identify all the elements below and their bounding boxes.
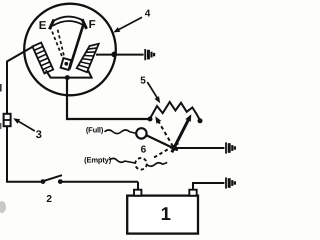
svg-text:(Full): (Full) (86, 125, 104, 134)
svg-text:6: 6 (141, 145, 147, 156)
svg-text:4: 4 (145, 8, 151, 19)
svg-text:F: F (89, 19, 96, 31)
svg-text:2: 2 (46, 194, 52, 205)
svg-text:(Empty): (Empty) (84, 155, 112, 164)
svg-text:3: 3 (36, 129, 42, 141)
svg-text:E: E (39, 20, 47, 32)
svg-text:1: 1 (161, 203, 171, 224)
svg-text:5: 5 (140, 75, 146, 86)
